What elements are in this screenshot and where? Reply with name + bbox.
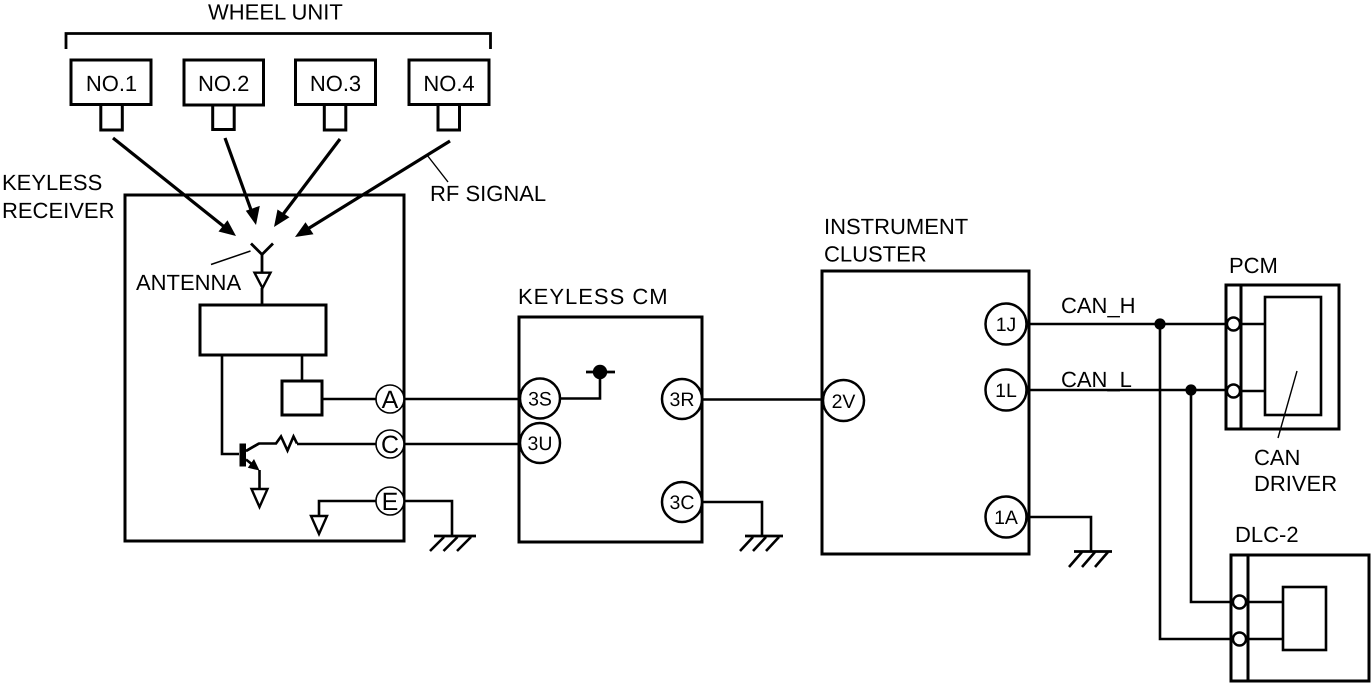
svg-text:CLUSTER: CLUSTER <box>824 242 927 267</box>
svg-text:DRIVER: DRIVER <box>1254 471 1337 496</box>
svg-text:RF SIGNAL: RF SIGNAL <box>430 181 546 206</box>
wheel unit bracket <box>66 34 491 50</box>
svg-text:NO.3: NO.3 <box>310 71 361 96</box>
RF signal arrow from NO.1 <box>113 138 236 236</box>
svg-text:DLC-2: DLC-2 <box>1235 522 1299 547</box>
junction CAN_H <box>1154 318 1165 329</box>
DLC-2 connector strip <box>1247 555 1250 681</box>
net CAN_L wire <box>1028 389 1233 392</box>
svg-text:WHEEL UNIT: WHEEL UNIT <box>208 0 343 25</box>
svg-text:CAN_L: CAN_L <box>1061 367 1132 392</box>
pin E <box>376 487 404 516</box>
wire module to output box <box>301 355 304 381</box>
keyless CM box <box>519 317 702 542</box>
wheel unit NO.4 <box>409 60 489 130</box>
keyless receiver box <box>125 195 404 541</box>
pin C <box>376 430 404 459</box>
svg-text:NO.4: NO.4 <box>423 71 474 96</box>
ground (emitter, open triangle) <box>252 489 268 507</box>
wheel unit NO.3 <box>296 60 376 130</box>
wire resistor to pin C <box>297 443 378 446</box>
RF signal arrow from NO.3 <box>274 139 340 227</box>
wire C to 3U <box>404 443 522 446</box>
RF signal arrow from NO.4 <box>295 141 450 237</box>
wire pin E to internal ground <box>319 501 378 516</box>
svg-text:CAN_H: CAN_H <box>1061 293 1136 318</box>
pin 3C <box>662 482 702 522</box>
svg-text:KEYLESS: KEYLESS <box>2 170 102 195</box>
svg-text:C: C <box>381 431 399 459</box>
wire 3C to chassis ground <box>702 502 762 536</box>
leader line RF SIGNAL <box>427 155 448 182</box>
DLC-2 box <box>1231 555 1369 681</box>
svg-text:3C: 3C <box>670 492 695 514</box>
pin 1L <box>986 370 1027 411</box>
svg-text:CAN: CAN <box>1254 445 1300 470</box>
transistor Q1 <box>240 444 260 490</box>
power tap node (battery) <box>586 365 615 379</box>
DLC-2 pin (CAN_H) <box>1233 633 1246 646</box>
receiver RF module box <box>200 305 326 355</box>
PCM box <box>1226 285 1339 429</box>
wire E to chassis ground <box>404 501 452 536</box>
wire output box to pin A <box>322 398 378 401</box>
svg-text:2V: 2V <box>832 391 856 413</box>
pin 3U <box>520 423 560 463</box>
PCM connector strip <box>1240 285 1243 429</box>
wire DLC-2 pin to internal (CAN_L) <box>1248 601 1283 604</box>
instrument cluster box <box>822 271 1029 554</box>
ground (chassis, cluster 1A) <box>1069 552 1112 568</box>
pin 1J <box>986 304 1027 345</box>
pin A <box>376 385 404 414</box>
pin 3S <box>520 379 560 419</box>
svg-text:ANTENNA: ANTENNA <box>136 270 241 295</box>
leader line CAN DRIVER <box>1278 371 1297 438</box>
svg-text:KEYLESS CM: KEYLESS CM <box>518 284 669 309</box>
CAN driver IC box <box>1265 297 1321 415</box>
svg-text:NO.1: NO.1 <box>86 71 137 96</box>
wire CAN_L to DLC-2 <box>1191 390 1240 602</box>
wire CAN_H to DLC-2 <box>1160 324 1240 639</box>
junction CAN_L <box>1185 384 1196 395</box>
svg-text:3U: 3U <box>528 433 553 455</box>
DLC-2 pin (CAN_L) <box>1233 596 1246 609</box>
svg-text:1L: 1L <box>995 380 1017 402</box>
svg-text:INSTRUMENT: INSTRUMENT <box>824 214 968 239</box>
svg-text:E: E <box>382 488 399 516</box>
wire from module to transistor base <box>222 355 239 454</box>
pin 1A <box>986 497 1027 538</box>
pin 3R <box>662 379 702 419</box>
PCM pin (CAN_L) <box>1227 385 1240 398</box>
svg-text:1A: 1A <box>994 507 1018 529</box>
svg-text:A: A <box>382 386 399 414</box>
svg-text:1J: 1J <box>996 314 1017 336</box>
resistor (collector to C) <box>246 437 297 452</box>
svg-text:PCM: PCM <box>1229 253 1278 278</box>
wire 1A to chassis ground <box>1028 517 1091 551</box>
wire 3R to 2V <box>702 398 824 401</box>
ground (receiver internal, open triangle) <box>311 516 327 534</box>
leader line ANTENNA <box>211 251 251 265</box>
net CAN_H wire <box>1028 323 1228 326</box>
wire PCM pin to CAN driver (CAN_L) <box>1241 390 1265 393</box>
pin 2V <box>823 380 864 421</box>
ground (chassis, keyless receiver E) <box>430 536 476 551</box>
DLC-2 internal box <box>1283 587 1326 650</box>
antenna symbol <box>251 244 273 306</box>
svg-text:3R: 3R <box>670 389 695 411</box>
receiver output box <box>282 381 322 415</box>
wire 3S to battery tap <box>560 379 600 399</box>
ground (chassis, keyless CM 3C) <box>740 536 783 551</box>
wire A to 3S <box>404 398 522 401</box>
wheel unit NO.2 <box>184 60 264 130</box>
PCM pin (CAN_H) <box>1227 318 1240 331</box>
RF signal arrow from NO.2 <box>225 138 260 225</box>
svg-text:3S: 3S <box>528 389 552 411</box>
svg-text:RECEIVER: RECEIVER <box>2 198 114 223</box>
wheel unit NO.1 <box>71 60 151 130</box>
wire DLC-2 pin to internal (CAN_H) <box>1248 638 1283 641</box>
svg-text:NO.2: NO.2 <box>198 71 249 96</box>
wire PCM pin to CAN driver (CAN_H) <box>1241 323 1265 326</box>
